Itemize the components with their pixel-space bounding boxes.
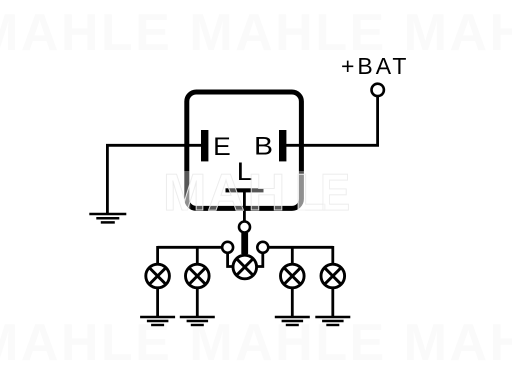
lamp center	[233, 255, 257, 279]
terminal bar B	[279, 130, 286, 161]
relay box U1	[187, 92, 302, 208]
svg-text:A: A	[207, 164, 245, 222]
watermark lightening over box left edge	[184, 171, 191, 211]
wire node right to center lamp	[252, 251, 263, 267]
svg-text:B: B	[254, 133, 273, 161]
svg-text:MAHLE MAHLE MAHLE: MAHLE MAHLE MAHLE	[0, 314, 512, 372]
wire lamp 4 to ground	[331, 282, 334, 317]
wire B terminal to +BAT	[286, 92, 378, 145]
lamp 3	[281, 264, 305, 288]
ground G2 (lamp 1)	[140, 317, 175, 325]
wire node left to center lamp	[228, 251, 238, 267]
svg-text:E: E	[213, 133, 231, 161]
wire lamp 1 to ground	[156, 282, 159, 317]
wire E terminal to ground	[107, 145, 201, 214]
lamp 1	[146, 264, 170, 288]
wire lamp bus left	[158, 246, 222, 249]
wire L plate to L terminal	[243, 192, 246, 225]
wire drop to lamp 3	[291, 249, 294, 271]
ground G5 (lamp 4)	[315, 317, 350, 325]
lamp 4	[321, 264, 345, 288]
terminal +BAT circle	[372, 84, 384, 96]
terminal bar E	[201, 130, 208, 161]
wire drop to lamp 4	[331, 246, 334, 270]
ground G4 (lamp 3)	[275, 317, 310, 325]
wire lamp 3 to ground	[291, 282, 294, 317]
wire lamp 2 to ground	[196, 282, 199, 317]
node right circle	[257, 242, 268, 253]
watermark MAHLE center overlay	[163, 164, 350, 222]
wire drop to lamp 1	[156, 246, 159, 270]
svg-text:H: H	[248, 164, 286, 222]
watermark lightening over box right edge	[298, 171, 305, 211]
lamp 2	[186, 264, 210, 288]
ground G3 (lamp 2)	[180, 317, 215, 325]
terminal L circle	[239, 222, 250, 233]
ground G1 (left)	[89, 214, 126, 222]
node left circle	[222, 242, 233, 253]
terminal plate L	[226, 188, 264, 192]
wire thick stub L to center lamp	[241, 233, 248, 254]
wire drop to lamp 2	[196, 249, 199, 271]
wire lamp bus right	[269, 246, 333, 249]
svg-text:+BAT: +BAT	[341, 53, 409, 79]
svg-text:MAHLE MAHLE MAHLE: MAHLE MAHLE MAHLE	[0, 4, 512, 62]
svg-text:E: E	[320, 164, 350, 222]
